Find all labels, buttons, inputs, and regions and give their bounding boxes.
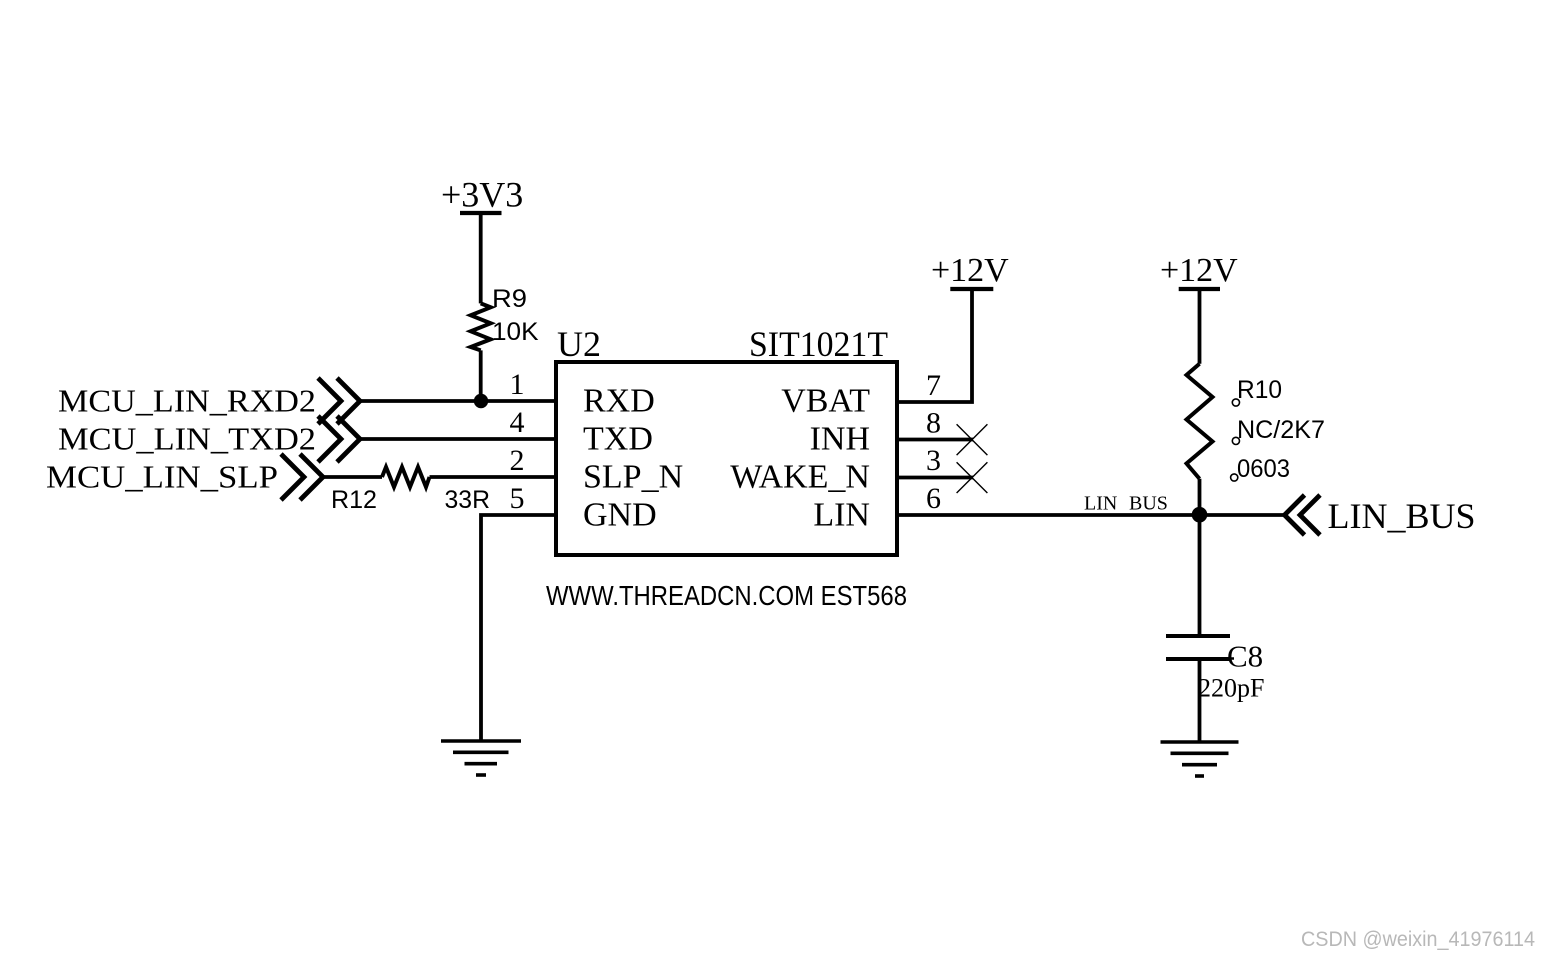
svg-text:1: 1 — [510, 368, 525, 401]
svg-text:GND: GND — [583, 497, 657, 534]
svg-text:+12V: +12V — [931, 252, 1009, 289]
svg-text:6: 6 — [926, 482, 941, 515]
svg-text:3: 3 — [926, 444, 941, 477]
svg-text:LIN: LIN — [813, 497, 870, 534]
svg-text:4: 4 — [510, 406, 525, 439]
svg-text:INH: INH — [810, 421, 870, 458]
svg-text:U2: U2 — [557, 324, 601, 364]
svg-text:33R: 33R — [445, 486, 491, 514]
svg-text:NC/2K7: NC/2K7 — [1237, 416, 1325, 444]
svg-text:7: 7 — [926, 369, 941, 402]
svg-text:R10: R10 — [1237, 376, 1282, 404]
svg-text:8: 8 — [926, 407, 941, 440]
svg-text:WAKE_N: WAKE_N — [730, 459, 870, 496]
svg-text:SIT1021T: SIT1021T — [749, 324, 888, 364]
svg-text:MCU_LIN_TXD2: MCU_LIN_TXD2 — [58, 421, 316, 457]
svg-text:RXD: RXD — [583, 383, 655, 420]
svg-text:10K: 10K — [492, 318, 539, 346]
svg-text:LIN: LIN — [1084, 493, 1117, 515]
svg-text:+3V3: +3V3 — [441, 175, 523, 215]
svg-text:+12V: +12V — [1160, 252, 1238, 289]
svg-text:5: 5 — [510, 482, 525, 515]
svg-text:2: 2 — [510, 444, 525, 477]
svg-text:BUS: BUS — [1129, 493, 1168, 515]
svg-text:MCU_LIN_RXD2: MCU_LIN_RXD2 — [58, 383, 316, 419]
svg-text:0603: 0603 — [1237, 455, 1290, 483]
svg-text:MCU_LIN_SLP: MCU_LIN_SLP — [46, 459, 278, 495]
svg-text:R12: R12 — [331, 486, 377, 514]
svg-text:WWW.THREADCN.COM EST568: WWW.THREADCN.COM EST568 — [546, 580, 907, 611]
svg-text:SLP_N: SLP_N — [583, 459, 683, 496]
svg-text:C8: C8 — [1227, 639, 1263, 674]
svg-text:CSDN @weixin_41976114: CSDN @weixin_41976114 — [1301, 928, 1535, 951]
svg-text:TXD: TXD — [583, 421, 653, 458]
svg-text:LIN_BUS: LIN_BUS — [1328, 496, 1476, 536]
svg-text:R9: R9 — [492, 285, 527, 313]
svg-text:220pF: 220pF — [1198, 674, 1264, 703]
svg-text:VBAT: VBAT — [781, 383, 870, 420]
